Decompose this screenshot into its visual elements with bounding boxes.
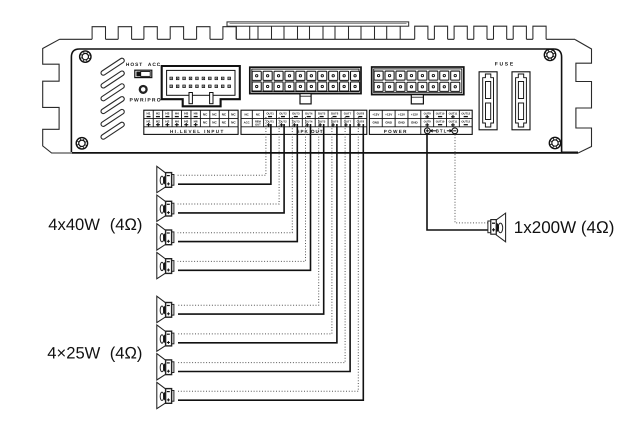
svg-text:+12V: +12V <box>398 113 405 117</box>
svg-text:OUT4: OUT4 <box>305 111 313 115</box>
svg-text:OUT6: OUT6 <box>331 111 339 115</box>
svg-text:NC: NC <box>222 121 227 125</box>
svg-text:GND: GND <box>411 121 419 125</box>
svg-text:4×25W: 4×25W <box>47 344 100 363</box>
svg-text:H5: H5 <box>184 111 188 115</box>
svg-text:BTL: BTL <box>436 129 448 134</box>
svg-text:OUT7: OUT7 <box>344 111 352 115</box>
svg-text:NC: NC <box>231 121 236 125</box>
svg-text:OUT5: OUT5 <box>318 111 326 115</box>
svg-text:OUT: OUT <box>255 123 261 126</box>
svg-text:NC: NC <box>212 113 217 117</box>
svg-text:OUT12: OUT12 <box>461 112 470 115</box>
svg-text:H1: H1 <box>147 111 151 115</box>
svg-text:NC: NC <box>222 113 227 117</box>
svg-text:H2: H2 <box>156 120 160 124</box>
svg-text:+12V: +12V <box>372 113 379 117</box>
svg-text:HOST ACC: HOST ACC <box>126 62 161 68</box>
svg-text:OUT12: OUT12 <box>461 120 470 123</box>
svg-text:H6: H6 <box>194 120 198 124</box>
svg-text:OUT9: OUT9 <box>424 112 432 115</box>
svg-text:+12V: +12V <box>385 113 392 117</box>
svg-text:GND: GND <box>385 121 393 125</box>
svg-text:H3: H3 <box>165 120 169 124</box>
svg-text:PWR/PRO: PWR/PRO <box>130 97 162 103</box>
svg-text:GND: GND <box>372 121 380 125</box>
svg-text:OUT11: OUT11 <box>449 112 458 115</box>
svg-text:OUT2: OUT2 <box>279 119 287 123</box>
svg-text:(4Ω): (4Ω) <box>110 344 143 363</box>
svg-text:4x40W: 4x40W <box>48 215 100 234</box>
svg-text:NC: NC <box>203 121 208 125</box>
svg-text:OUT1: OUT1 <box>266 111 274 115</box>
svg-text:NC: NC <box>231 113 236 117</box>
svg-text:OUT10: OUT10 <box>436 120 445 123</box>
svg-text:OUT9: OUT9 <box>424 120 432 123</box>
svg-text:+12V: +12V <box>411 113 418 117</box>
svg-text:POWER: POWER <box>384 129 408 134</box>
svg-text:GND: GND <box>398 121 406 125</box>
svg-text:H4: H4 <box>175 111 179 115</box>
svg-text:OUT3: OUT3 <box>292 119 300 123</box>
svg-text:NC: NC <box>203 113 208 117</box>
svg-text:OUT1: OUT1 <box>266 119 274 123</box>
svg-text:H1: H1 <box>147 120 151 124</box>
svg-text:H3: H3 <box>165 111 169 115</box>
svg-text:H5: H5 <box>184 120 188 124</box>
svg-text:OUT11: OUT11 <box>449 120 458 123</box>
svg-text:H6: H6 <box>194 111 198 115</box>
svg-text:OUT10: OUT10 <box>436 112 445 115</box>
svg-text:ACC: ACC <box>244 121 250 125</box>
svg-text:OUT4: OUT4 <box>305 119 313 123</box>
svg-text:HI.LEVEL INPUT: HI.LEVEL INPUT <box>170 129 225 134</box>
svg-text:(4Ω): (4Ω) <box>110 215 143 234</box>
svg-text:OUT2: OUT2 <box>279 111 287 115</box>
svg-text:NC: NC <box>212 121 217 125</box>
svg-text:1x200W (4Ω): 1x200W (4Ω) <box>514 218 615 237</box>
svg-text:OUT3: OUT3 <box>292 111 300 115</box>
svg-text:FUSE: FUSE <box>495 62 515 68</box>
svg-text:H4: H4 <box>175 120 179 124</box>
svg-text:OUT8: OUT8 <box>357 111 365 115</box>
svg-text:H2: H2 <box>156 111 160 115</box>
